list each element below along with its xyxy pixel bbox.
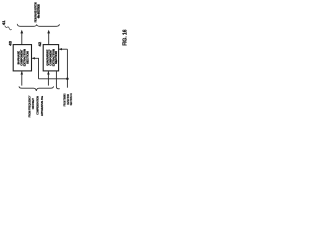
arrow from block 43 to output bbox=[20, 30, 23, 45]
svg-text:FIG. 16: FIG. 16 bbox=[122, 30, 128, 46]
block 42: quadrature component extraction section bbox=[43, 45, 58, 71]
svg-text:OFFSET: OFFSET bbox=[31, 98, 35, 109]
top brace grouping outputs bbox=[17, 24, 59, 26]
svg-text:40c SECTION: 40c SECTION bbox=[37, 4, 41, 18]
svg-text:42: 42 bbox=[38, 42, 42, 47]
svg-text:APPARATUS 40a: APPARATUS 40a bbox=[40, 96, 44, 116]
svg-text:43: 43 bbox=[9, 41, 13, 46]
wire into right edge of block 42 bbox=[59, 48, 68, 50]
svg-text:COMPENSATION: COMPENSATION bbox=[36, 96, 40, 115]
top label: TO DATA DECISION SECTION 40c bbox=[34, 2, 41, 22]
block 43: in-phase component extraction section bbox=[13, 45, 31, 71]
svg-text:SECTION 44: SECTION 44 bbox=[69, 93, 73, 105]
wire input to block 42 from below bbox=[47, 71, 50, 85]
wire input to block 43 from below bbox=[21, 71, 24, 85]
numeral 41 with wavy leader bbox=[2, 21, 12, 30]
wire from timing detection to block 43 (bent) bbox=[32, 57, 39, 79]
junction dot bbox=[66, 78, 69, 81]
bottom-left label: FROM FREQUENCY OFFSET COMPENSATION APPARATUS 40a bbox=[28, 95, 44, 117]
wire from timing detection vertical run bbox=[66, 49, 68, 87]
svg-text:41: 41 bbox=[2, 21, 6, 26]
svg-text:SECTION: SECTION bbox=[55, 51, 58, 64]
svg-text:FROM TIMING: FROM TIMING bbox=[62, 93, 66, 106]
arrow from block 42 to output bbox=[47, 30, 50, 45]
bottom brace grouping inputs bbox=[19, 86, 54, 91]
svg-text:SECTION: SECTION bbox=[27, 51, 30, 64]
bottom-right label: FROM TIMING DETECTION SECTION 44 bbox=[62, 93, 73, 106]
wire branch from junction to bend bbox=[39, 78, 68, 80]
curved wire from bottom of block 42 down to timing label bbox=[56, 71, 59, 89]
